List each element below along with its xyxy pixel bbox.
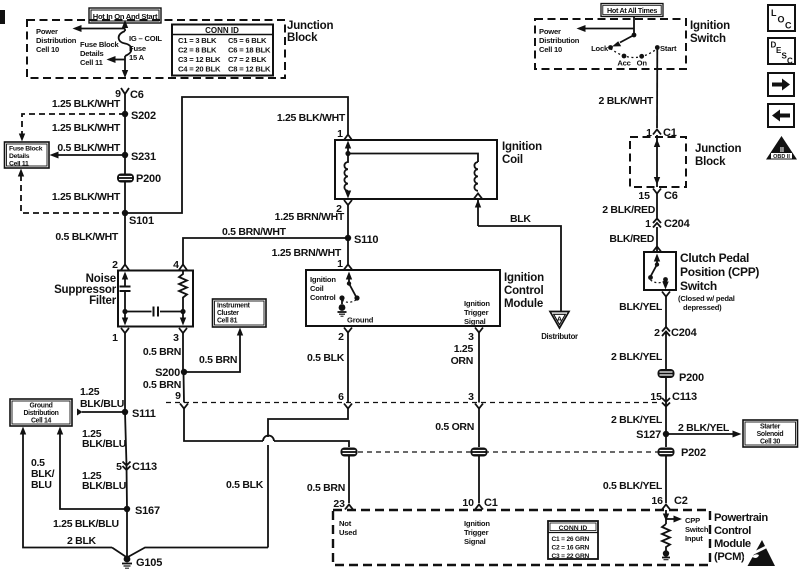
wire CPP to C204 pin 2 (665, 297, 667, 328)
icon LOC (768, 5, 795, 31)
starter solenoid box (743, 420, 798, 447)
svg-text:C1: C1 (484, 497, 498, 509)
svg-text:Details: Details (80, 49, 104, 58)
filter left branch: arrow + capacitor (122, 272, 128, 280)
svg-text:23: 23 (333, 498, 345, 510)
svg-text:Distribution: Distribution (23, 410, 58, 417)
primary winding (344, 154, 348, 191)
svg-text:C6 = 18 BLK: C6 = 18 BLK (228, 46, 271, 55)
wire ICM pin2 down (0.5 BLK) (347, 333, 349, 403)
junction block 2 dashed box (630, 137, 686, 187)
inline connector grommet (BRN wire) (341, 448, 358, 457)
svg-text:P200: P200 (679, 372, 704, 384)
wire arrow to power distribution (584, 28, 634, 30)
svg-text:2 BLK/YEL: 2 BLK/YEL (611, 414, 663, 426)
svg-text:1.25 BLK/WHT: 1.25 BLK/WHT (52, 98, 121, 110)
svg-text:BLK/RED: BLK/RED (609, 233, 654, 245)
header label Hot At All Times (601, 4, 663, 17)
svg-text:Power: Power (539, 27, 561, 36)
svg-text:2 BLK: 2 BLK (67, 535, 97, 547)
svg-text:BLK/BLU: BLK/BLU (80, 398, 124, 410)
svg-text:Coil: Coil (310, 284, 324, 293)
svg-text:Start: Start (660, 44, 677, 53)
svg-text:C1 = 3 BLK: C1 = 3 BLK (178, 36, 217, 45)
svg-text:1: 1 (645, 218, 651, 230)
svg-text:S231: S231 (131, 151, 156, 163)
pass-through grommet P200 (117, 173, 161, 185)
svg-text:15 A: 15 A (129, 53, 145, 62)
svg-text:C4 = 20 BLK: C4 = 20 BLK (178, 65, 221, 74)
svg-text:0.5 BLK/WHT: 0.5 BLK/WHT (57, 142, 121, 154)
svg-text:C5 = 6 BLK: C5 = 6 BLK (228, 36, 267, 45)
pass-through grommet P200 (right) (658, 369, 704, 384)
secondary lead arrow up into coil (477, 199, 479, 226)
svg-text:BLK/BLU: BLK/BLU (82, 438, 126, 450)
svg-text:S127: S127 (636, 429, 661, 441)
svg-text:1.25 BRN/WHT: 1.25 BRN/WHT (272, 247, 342, 259)
svg-text:II: II (780, 147, 784, 154)
node S231 (122, 152, 128, 158)
svg-text:C204: C204 (671, 327, 698, 339)
wire S111 to ground dist (triangle lead) (82, 411, 125, 413)
svg-text:Position (CPP): Position (CPP) (680, 265, 759, 279)
ground dist left lead 0.5 BLK/BLU (23, 431, 112, 548)
svg-text:0.5 BRN: 0.5 BRN (307, 482, 345, 494)
svg-text:Cell 81: Cell 81 (217, 318, 238, 325)
wire: feed stub above fuse with up arrow (124, 29, 126, 32)
svg-text:16: 16 (651, 495, 663, 507)
svg-text:0.5 BLK/YEL: 0.5 BLK/YEL (603, 480, 663, 492)
svg-text:Junction: Junction (287, 20, 333, 32)
chevron below CPP (662, 292, 670, 297)
svg-text:BLK: BLK (510, 213, 531, 225)
svg-text:Control: Control (310, 293, 336, 302)
svg-text:Module: Module (714, 538, 751, 550)
svg-text:Ignition: Ignition (502, 141, 542, 153)
svg-text:2 BLK/YEL: 2 BLK/YEL (678, 422, 730, 434)
svg-text:5: 5 (116, 461, 122, 473)
svg-text:2 BLK/WHT: 2 BLK/WHT (599, 95, 654, 107)
svg-text:Trigger: Trigger (464, 308, 489, 317)
svg-text:0.5 BLK: 0.5 BLK (307, 352, 345, 364)
coil internal feed arrow and node (347, 146, 349, 154)
pass-through grommet P202 (658, 447, 706, 459)
svg-text:0.5 BLK: 0.5 BLK (226, 479, 264, 491)
svg-text:ORN: ORN (451, 355, 473, 367)
svg-text:Ignition: Ignition (464, 519, 490, 528)
switch contacts Lock Acc On Start (611, 49, 658, 58)
svg-text:Acc: Acc (617, 59, 630, 68)
svg-text:Cell 10: Cell 10 (539, 45, 562, 54)
svg-text:Filter: Filter (89, 295, 117, 307)
svg-text:C204: C204 (664, 218, 691, 230)
svg-text:Hot At All Times: Hot At All Times (607, 6, 657, 15)
wire hop over ground wire (263, 436, 274, 441)
svg-text:2: 2 (338, 331, 344, 343)
svg-text:CONN ID: CONN ID (205, 26, 239, 35)
svg-text:Ignition: Ignition (504, 272, 544, 284)
svg-text:Ground: Ground (29, 403, 52, 410)
svg-text:Fuse Block: Fuse Block (9, 146, 43, 153)
svg-text:Distribution: Distribution (36, 36, 77, 45)
header label Hot In On And Start (89, 8, 161, 23)
fuse IG-COIL (119, 31, 132, 56)
svg-text:IG – COIL: IG – COIL (129, 34, 162, 43)
svg-text:Cell 30: Cell 30 (760, 439, 781, 446)
svg-text:depressed): depressed) (683, 303, 722, 312)
svg-text:1.25 BLK/WHT: 1.25 BLK/WHT (52, 191, 121, 203)
svg-text:Not: Not (339, 519, 352, 528)
wire S202 to S231 (124, 114, 126, 155)
svg-text:O: O (778, 15, 785, 25)
svg-text:Ignition: Ignition (464, 299, 490, 308)
svg-text:Switch: Switch (680, 279, 717, 293)
svg-text:4: 4 (173, 259, 179, 271)
ground bus into G105 (112, 548, 268, 558)
svg-text:2: 2 (654, 327, 660, 339)
svg-text:S111: S111 (132, 408, 156, 420)
wire S167 to G105 (126, 509, 128, 557)
svg-text:C3 = 22 GRN: C3 = 22 GRN (552, 553, 590, 560)
ICM driver switch (338, 272, 360, 317)
svg-text:C2 = 16 GRN: C2 = 16 GRN (552, 545, 590, 552)
CPP switch internals (648, 254, 669, 290)
svg-text:S200: S200 (155, 367, 180, 379)
wire S200 branch to PCM pin 23 (184, 409, 263, 442)
svg-text:Cluster: Cluster (217, 310, 239, 317)
svg-text:C113: C113 (672, 391, 697, 403)
arrow down at box bottom (122, 70, 128, 78)
junction block 1 dashed box (27, 20, 285, 78)
svg-text:10: 10 (462, 497, 474, 509)
instrument cluster box (213, 299, 267, 327)
dashed wire S202 to Fuse Block Details box (22, 114, 125, 134)
svg-text:Switch: Switch (685, 525, 709, 534)
ignition switch wiper (632, 33, 637, 38)
svg-text:OBD II: OBD II (773, 154, 790, 160)
wire S110 to ICM pin 1 (347, 238, 349, 264)
ESD symbol (744, 540, 775, 566)
wire: fuse to bottom of box (124, 56, 126, 71)
svg-text:1.25 BLK/WHT: 1.25 BLK/WHT (52, 122, 121, 134)
icon arrow left (768, 104, 794, 127)
wire C204 to P200 (665, 332, 667, 370)
svg-text:Lock: Lock (591, 44, 609, 53)
fuse block details box (5, 142, 50, 168)
powertrain control module box (dashed) (333, 510, 710, 565)
svg-text:C113: C113 (132, 461, 157, 473)
svg-text:C: C (787, 57, 793, 66)
wire C6 to C204 (656, 194, 658, 219)
node S200 (181, 369, 187, 375)
svg-text:Ground: Ground (347, 316, 374, 325)
svg-text:C1 = 26 GRN: C1 = 26 GRN (552, 536, 590, 543)
svg-text:Module: Module (504, 298, 543, 310)
ignition switch dashed box (535, 19, 686, 69)
wire: arrow to Power Distribution (80, 28, 125, 30)
svg-text:Power: Power (36, 27, 58, 36)
svg-text:15: 15 (638, 190, 650, 202)
node S127 (663, 431, 669, 437)
svg-text:Control: Control (504, 285, 543, 297)
svg-text:CPP: CPP (685, 516, 700, 525)
CONN ID table (PCM) (548, 521, 598, 560)
svg-text:C8 = 12 BLK: C8 = 12 BLK (228, 65, 271, 74)
svg-text:1.25: 1.25 (454, 343, 474, 355)
svg-text:(PCM): (PCM) (714, 551, 745, 563)
svg-text:Ignition: Ignition (690, 20, 730, 32)
wire P200 to C113 (665, 378, 667, 434)
wire S200 to instrument cluster (184, 334, 240, 372)
svg-text:C2: C2 (674, 495, 688, 507)
node S110 (345, 235, 351, 241)
svg-text:9: 9 (175, 390, 181, 402)
svg-text:Cell 11: Cell 11 (9, 161, 29, 168)
svg-text:2 BLK/YEL: 2 BLK/YEL (611, 351, 663, 363)
ignition control module box U2 (306, 270, 500, 326)
ground G105 (122, 556, 162, 569)
connector C6 pin 9 (121, 88, 129, 94)
filter middle capacitor (125, 311, 152, 313)
wire Start to C1 (656, 48, 658, 129)
svg-text:Distribution: Distribution (539, 36, 580, 45)
svg-text:On: On (637, 59, 648, 68)
svg-text:Switch: Switch (690, 33, 726, 45)
svg-text:Distributor: Distributor (541, 332, 578, 341)
ignition coil box U-coil (335, 140, 497, 199)
node S202 (122, 111, 128, 117)
svg-text:3: 3 (468, 331, 474, 343)
svg-text:S167: S167 (135, 505, 160, 517)
svg-text:CONN ID: CONN ID (559, 525, 588, 532)
svg-text:C6: C6 (664, 190, 678, 202)
node S111 (122, 409, 128, 415)
svg-text:1: 1 (112, 332, 118, 344)
svg-text:P200: P200 (136, 173, 161, 185)
svg-text:BLU: BLU (31, 479, 52, 491)
wire: arrow to Fuse Block Details (114, 59, 125, 61)
wire S101 up-rail to ignition coil pin 1 (125, 97, 348, 213)
svg-text:1.25 BLK/WHT: 1.25 BLK/WHT (277, 112, 346, 124)
svg-text:C6: C6 (130, 89, 144, 101)
PCM CPP input circuit (662, 510, 682, 560)
connector C113 dashed line (166, 402, 658, 404)
svg-text:0.5 BRN: 0.5 BRN (199, 354, 237, 366)
icon arrow right (768, 73, 794, 96)
svg-text:3: 3 (468, 391, 474, 403)
node S101 (122, 210, 128, 216)
svg-text:C2 = 8 BLK: C2 = 8 BLK (178, 46, 217, 55)
wire C204 to CPP switch (656, 227, 658, 252)
svg-text:S110: S110 (354, 234, 378, 246)
secondary bottom chevron (474, 194, 482, 199)
wire pin3 to PCM pin 10 (478, 409, 480, 448)
wire P202 to PCM pin 16 (665, 456, 667, 503)
wire noise pin1 to S111 (125, 333, 127, 509)
svg-text:Control: Control (714, 525, 751, 537)
svg-text:A: A (557, 315, 563, 324)
svg-text:S202: S202 (131, 110, 156, 122)
svg-text:L: L (771, 8, 777, 18)
svg-text:Block: Block (287, 32, 318, 44)
svg-text:Instrument: Instrument (217, 303, 251, 310)
wire S127 to P202 (665, 434, 667, 447)
svg-text:BLK/BLU: BLK/BLU (82, 480, 126, 492)
ground dist right lead 1.25 BLK/BLU (60, 431, 124, 509)
icon DESC (768, 38, 795, 66)
CONN ID table (junction block) (172, 25, 273, 76)
wire S110 branch to noise filter pin 4 (183, 238, 348, 265)
distributor (541, 312, 578, 342)
wire S101 to noise filter pin 2 (124, 213, 126, 265)
inline connector grommet (ORN wire) (471, 448, 488, 457)
svg-text:Clutch Pedal: Clutch Pedal (680, 251, 749, 265)
svg-text:Powertrain: Powertrain (714, 512, 768, 524)
svg-text:Block: Block (695, 156, 726, 168)
wire through junction block (656, 135, 658, 187)
wire grommet to PCM pin 23 (348, 456, 350, 503)
svg-text:G105: G105 (136, 557, 162, 569)
svg-text:Junction: Junction (695, 143, 741, 155)
svg-text:Starter: Starter (760, 424, 781, 431)
wire ICM pin3 down (1.25 ORN) (478, 333, 480, 403)
svg-text:P202: P202 (681, 447, 706, 459)
svg-text:1.25: 1.25 (80, 386, 100, 398)
svg-text:Cell 11: Cell 11 (80, 58, 104, 67)
connector P202 dashed line (358, 451, 658, 453)
svg-text:0.5 BRN/WHT: 0.5 BRN/WHT (222, 226, 287, 238)
svg-text:Input: Input (685, 534, 703, 543)
svg-text:Signal: Signal (464, 317, 486, 326)
svg-text:BLK/YEL: BLK/YEL (619, 301, 663, 313)
svg-text:Ignition: Ignition (310, 275, 336, 284)
wire pin3 to S200 (183, 333, 184, 403)
chevron into CPP (653, 247, 661, 252)
wire pin6 to ground web (268, 409, 348, 438)
svg-text:Coil: Coil (502, 154, 523, 166)
svg-text:Solenoid: Solenoid (757, 431, 784, 438)
svg-text:C3 = 12 BLK: C3 = 12 BLK (178, 55, 221, 64)
clutch pedal position switch box (644, 252, 676, 290)
svg-text:Used: Used (339, 528, 357, 537)
wire S231 to P200 (124, 155, 126, 213)
svg-text:Signal: Signal (464, 537, 486, 546)
svg-text:Trigger: Trigger (464, 528, 489, 537)
svg-text:1: 1 (337, 258, 343, 270)
dashed wire Fuse Block Details to S101 (21, 175, 125, 213)
coil internal link wire (348, 154, 478, 163)
wire battery feed into switch (633, 16, 635, 35)
filter right branch: resistor (179, 271, 187, 312)
svg-text:0.5 BRN: 0.5 BRN (143, 346, 181, 358)
ground distribution box (10, 399, 72, 426)
svg-text:6: 6 (338, 391, 344, 403)
svg-text:Cell 14: Cell 14 (31, 418, 52, 425)
svg-text:(Closed w/ pedal: (Closed w/ pedal (678, 294, 735, 303)
svg-text:Details: Details (9, 153, 30, 160)
svg-text:0.5 BLK/WHT: 0.5 BLK/WHT (55, 231, 119, 243)
scan artifact top-left corner (0, 10, 5, 24)
wire S231 to Fuse Block Details (arrow left) (57, 154, 125, 156)
svg-text:1.25 BRN/WHT: 1.25 BRN/WHT (275, 211, 345, 223)
svg-text:3: 3 (173, 332, 179, 344)
noise suppressor filter box (118, 271, 193, 327)
wire BLK secondary to distributor (478, 226, 561, 312)
svg-text:2: 2 (112, 259, 118, 271)
wire C6 to S202 (124, 94, 126, 114)
svg-text:2 BLK/RED: 2 BLK/RED (602, 204, 655, 216)
svg-text:0.5 ORN: 0.5 ORN (435, 421, 474, 433)
wire coil pin2 to S110 (347, 205, 349, 238)
secondary winding (474, 162, 478, 191)
icon OBD II triangle (766, 136, 797, 160)
node S167 (124, 506, 130, 512)
wire S127 branch to starter solenoid (666, 433, 734, 435)
svg-text:1.25 BLK/BLU: 1.25 BLK/BLU (53, 518, 119, 530)
svg-text:1: 1 (337, 128, 343, 140)
svg-text:Cell 10: Cell 10 (36, 45, 59, 54)
svg-text:S101: S101 (129, 215, 154, 227)
svg-text:15: 15 (650, 391, 662, 403)
svg-text:Fuse Block: Fuse Block (80, 40, 119, 49)
svg-text:C7 = 2 BLK: C7 = 2 BLK (228, 55, 267, 64)
primary to pin 2 arrow (347, 191, 349, 192)
svg-text:C: C (785, 21, 792, 31)
